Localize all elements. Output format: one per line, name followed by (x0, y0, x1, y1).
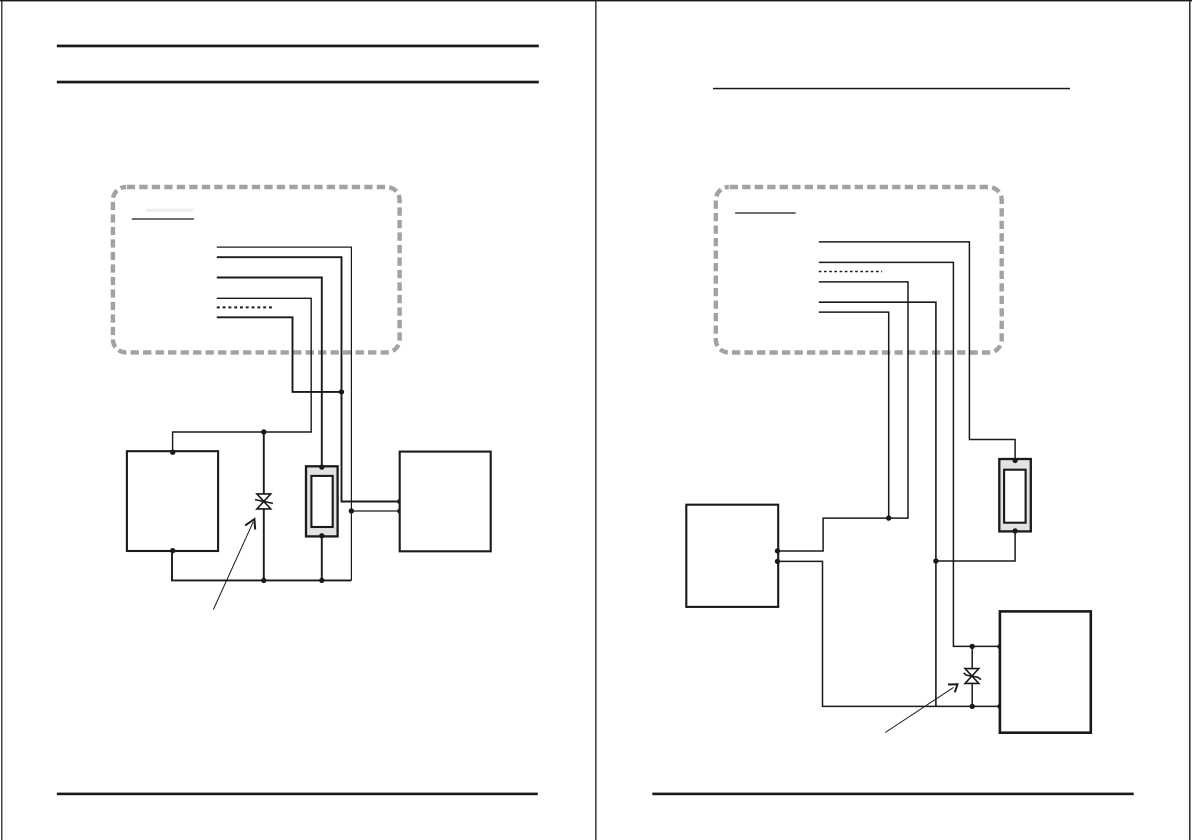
heater outer body (left page) (306, 466, 338, 536)
ghost text band (left page) (146, 209, 194, 212)
valve branch wire lower segment (left page) (263, 509, 265, 581)
junction heater lead/wireD (933, 558, 938, 563)
footer rule (right page) (652, 793, 1133, 796)
wire D: terminal down to bottom bus (right page) (819, 302, 936, 706)
right box (right page) (1000, 611, 1091, 732)
left box top pin (170, 450, 175, 455)
header rule (right page) (713, 88, 1070, 90)
junction heater/bottom bus (319, 578, 324, 583)
wire 5: terminal joining wire 2 (left page) (217, 317, 342, 392)
right box pin on top rail (right page) (997, 644, 1002, 649)
valve symbol (left page) (255, 494, 273, 509)
valve branch upper segment (right page) (971, 646, 973, 668)
junction valve/bottom bus (261, 578, 266, 583)
heater inner window (left page) (311, 476, 332, 527)
wire 3: terminal to heater top (left page) (217, 278, 322, 468)
junction valve bottom bus (970, 704, 975, 709)
wire E: terminal joining wire C (right page) (819, 312, 889, 518)
wire 1: terminal to right box lower pin (left page, thin) (217, 247, 352, 580)
footer rule (left page) (57, 793, 538, 796)
left box lower pin (right page) (775, 559, 780, 564)
heater inner window (right page) (1004, 470, 1026, 523)
control unit dashed enclosure (right page) (716, 187, 1002, 353)
heater bottom pin (right page) (1012, 528, 1017, 533)
callout arrow shaft (right page) (885, 687, 953, 732)
wire B: terminal to valve top rail (right page) (819, 262, 1000, 646)
left box lower wire (right page) (778, 561, 1000, 706)
page border left (1, 0, 2, 840)
left box (left page) (127, 451, 218, 551)
valve center dot (left page) (262, 500, 265, 503)
heater bottom pin (319, 533, 324, 538)
heater top pin (right page) (1012, 458, 1017, 463)
right box (left page) (400, 452, 491, 552)
junction wireE/wireC (886, 515, 891, 520)
junction on wire1 (349, 508, 354, 513)
label underline inside enclosure (left page) (132, 218, 194, 220)
callout arrow head (right page) (948, 684, 958, 692)
left box (right page) (686, 505, 778, 607)
callout arrow head (left page) (245, 519, 255, 530)
right box pin upper (left page) (397, 499, 402, 504)
heater top pin (319, 464, 324, 469)
valve branch lower segment (right page) (971, 683, 973, 706)
junction wire5/wire2 (339, 389, 344, 394)
header rule 2 (left page) (57, 81, 539, 84)
heater bottom lead (left page) (321, 536, 323, 581)
dashed stub wire (left page) (217, 306, 274, 308)
heater outer body (right page) (999, 459, 1031, 531)
wire 4: terminal to left box top (left page, thin) (173, 298, 312, 452)
control unit dashed enclosure (left page) (113, 187, 400, 352)
page border right (1189, 0, 1190, 840)
left box upper pin (right page) (775, 548, 780, 553)
junction valve top rail (970, 644, 975, 649)
valve center dot (right page) (970, 675, 973, 678)
left box bottom pin (170, 548, 175, 553)
bottom bus wire (left page) (172, 551, 351, 581)
wire 2: terminal to right box upper pin (left page) (217, 257, 400, 501)
dashed stub wire (right page) (819, 271, 882, 273)
label underline inside enclosure (right page) (735, 212, 796, 214)
valve symbol (right page) (964, 669, 981, 684)
junction wire4/valve branch (261, 429, 266, 434)
heater bottom lead (right page) (936, 531, 1015, 561)
page border top (0, 0, 1192, 1)
header rule 1 (left page) (57, 45, 539, 48)
valve branch wire upper segment (left page) (263, 432, 265, 494)
callout arrow shaft (left page) (213, 522, 253, 610)
wire C: terminal to left box upper pin (right page) (778, 282, 908, 551)
right box pin on bottom bus (right page) (997, 704, 1002, 709)
wire A: terminal to heater top (right page) (819, 242, 1015, 460)
center page divider (595, 0, 596, 840)
thin link wire1 to right box (left page) (351, 510, 400, 512)
right box pin lower (left page) (397, 508, 402, 513)
